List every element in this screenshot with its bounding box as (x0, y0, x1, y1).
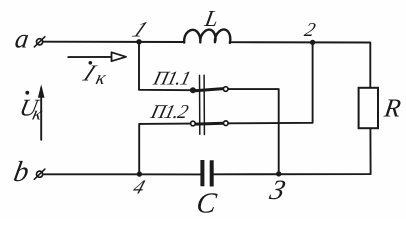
arrowhead of voltage arrow Uк (filled) (38, 84, 45, 98)
node 3 (276, 171, 281, 176)
voltage arrow Uк (40, 88, 42, 140)
node 2 (310, 40, 315, 45)
svg-text:3: 3 (266, 175, 289, 206)
inductor L (184, 29, 230, 42)
contact П1.1 left stud (filled) (190, 87, 196, 93)
wire contact П1.2 left to node 4 (139, 124, 190, 174)
wire contact П1.1 right to node 3 (228, 89, 279, 174)
current arrow Iк (68, 56, 121, 58)
svg-text:к: к (94, 68, 109, 89)
node 4 (137, 171, 142, 176)
svg-text:4: 4 (130, 177, 147, 198)
svg-text:L: L (202, 6, 220, 32)
node 1 (136, 39, 141, 44)
label Uк with dot (17, 91, 45, 124)
terminal a (34, 37, 45, 47)
capacitor C plates (202, 160, 211, 187)
terminal b (34, 169, 45, 179)
wire capacitor to node 3 to bottom-right corner up to R (214, 128, 371, 174)
contact blade П1.2 (195, 122, 223, 126)
contact blade П1.1 (195, 89, 223, 91)
svg-text:П1.2: П1.2 (148, 101, 191, 123)
wire inductor to top-right corner down to R (230, 42, 370, 87)
mechanical link bars of switch П1 (200, 75, 205, 134)
wire a to node 1 (44, 41, 184, 43)
svg-text:1: 1 (128, 18, 152, 42)
svg-text:C: C (195, 188, 219, 219)
svg-text:R: R (382, 94, 403, 123)
wire b to capacitor (44, 173, 200, 175)
svg-text:П1.1: П1.1 (150, 68, 192, 90)
contact П1.2 left stud (open) (191, 121, 196, 126)
svg-text:2: 2 (302, 19, 318, 41)
svg-text:a: a (13, 24, 31, 54)
wire node 1 down to contact П1.1 (139, 42, 190, 90)
label Iк with dot (78, 60, 108, 88)
svg-text:b: b (11, 156, 31, 188)
wire node 2 down to contact П1.2 (228, 42, 313, 123)
contact П1.2 right stud (open) (224, 121, 229, 126)
contact П1.1 right stud (open) (223, 87, 228, 92)
resistor R (359, 88, 378, 128)
arrowhead of current arrow Iк (open) (112, 52, 127, 61)
